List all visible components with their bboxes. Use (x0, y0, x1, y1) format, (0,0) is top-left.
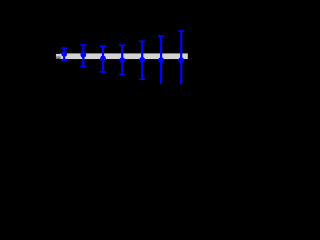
point 3 stem (102, 46, 104, 72)
caps (61, 47, 67, 49)
point 5 stem (141, 41, 143, 79)
point 6 stem (clipped bottom) (160, 36, 162, 84)
point 2 stem (82, 45, 84, 66)
point 4 stem (121, 45, 123, 74)
point 1 stem (63, 48, 65, 60)
error bars series (blue) (64, 31, 181, 84)
point 7 stem (clipped bottom) (180, 31, 182, 84)
markers (61, 51, 67, 57)
gray band (56, 53, 188, 59)
